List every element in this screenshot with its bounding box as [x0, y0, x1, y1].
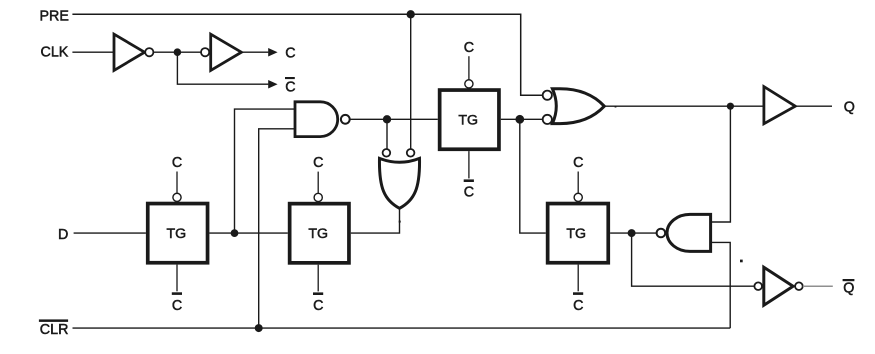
svg-text:C: C: [573, 155, 583, 171]
wire U5 output to Q buffer: [604, 105, 762, 107]
wire slave node down to TG4 input: [520, 119, 546, 233]
arrow C-bar: [268, 80, 277, 89]
wire U4 output down to TG2 output node: [351, 208, 400, 233]
wire PRE net: [72, 14, 542, 95]
nor gate U4 right input bubble: [407, 149, 415, 157]
wire U3 input 1 from master node between TG1 and TG2: [235, 109, 296, 232]
nand gate U7 body (facing left): [667, 214, 711, 251]
wire U3 output to TG3 input: [350, 118, 438, 120]
wire TG4 output to NAND U7 output bubble: [610, 232, 657, 234]
TG1 bottom control stub to C-bar: [176, 265, 178, 292]
wire internal clock node to C-bar arrow: [177, 52, 268, 84]
or gate U5 lower input bubble: [543, 115, 552, 124]
stray mark on U4 output wire: [399, 221, 401, 223]
wire U3 output node down to NOR U4 left input: [386, 119, 388, 149]
overline of C-bar below TG4: [573, 292, 583, 295]
nand gate U3 body: [295, 102, 338, 137]
or gate U5 upper input bubble: [543, 91, 552, 100]
TG4 control bubble: [574, 193, 582, 201]
inverter U1 (CLK input inverter): [114, 34, 145, 70]
svg-text:D: D: [58, 227, 68, 243]
wire U6 output to Q label: [795, 105, 832, 107]
TG2 control bubble: [314, 193, 322, 201]
buffer U6 (Q output driver): [764, 87, 795, 124]
svg-text:Q: Q: [843, 280, 854, 296]
U7 output bubble: [657, 229, 666, 238]
U1 output bubble: [145, 48, 153, 56]
wire slave output node down to Q-bar inverter: [632, 233, 755, 286]
TG2 bottom control stub to C-bar: [317, 265, 319, 292]
junction slave output node: [628, 229, 636, 237]
svg-text:C: C: [172, 155, 182, 171]
junction on CLR line: [255, 324, 263, 332]
overline of CLR label: [39, 319, 68, 322]
transmission gate TG3 box: [440, 90, 499, 149]
U3 output bubble: [341, 115, 350, 124]
junction Q node: [727, 103, 734, 110]
wire U7 lower input from CLR net: [711, 242, 731, 328]
transmission gate TG4 box: [548, 204, 609, 263]
TG1 control bubble: [173, 193, 181, 201]
TG2 control stub from C: [317, 172, 319, 194]
svg-text:CLR: CLR: [40, 322, 69, 338]
wire U8 output to Q-bar label: [803, 285, 833, 287]
svg-text:TG: TG: [566, 226, 586, 242]
U8 output bubble: [795, 282, 803, 290]
TG1 control stub from C: [176, 172, 178, 194]
svg-text:C: C: [172, 298, 182, 314]
wire PRE junction down to NOR U4 right input: [410, 14, 412, 149]
svg-text:C: C: [464, 40, 474, 56]
junction slave input node: [515, 115, 524, 124]
wire U1 output to U2 input: [153, 51, 201, 53]
transmission gate TG1 box: [148, 204, 208, 263]
overline of C-bar below TG3: [464, 179, 474, 182]
inverter U8 (Q-bar output driver): [764, 267, 793, 305]
nor gate U4 left input bubble: [383, 149, 391, 157]
TG4 control stub from C: [577, 172, 579, 194]
stray mark on U5 output wire: [615, 106, 617, 108]
svg-text:C: C: [285, 46, 295, 62]
wire D input to TG1: [74, 232, 146, 234]
svg-text:TG: TG: [458, 113, 478, 129]
wire Q node down to NAND U7 upper input: [711, 106, 731, 222]
wire CLK input: [72, 51, 113, 53]
wire U3 input 2 from CLR net: [259, 129, 295, 328]
svg-text:C: C: [313, 155, 323, 171]
nor gate U4 body (vertical, pointing down): [379, 158, 419, 208]
or gate U5 body: [552, 89, 604, 124]
overline of C-bar below TG1: [172, 292, 182, 295]
TG3 control bubble: [465, 80, 473, 88]
arrow C: [268, 48, 277, 57]
svg-text:CLK: CLK: [41, 45, 69, 61]
wire TG1 output to TG2 input: [209, 232, 287, 234]
transmission gate TG2 box: [290, 204, 349, 263]
svg-text:C: C: [313, 298, 323, 314]
svg-text:Q: Q: [844, 100, 855, 116]
svg-text:C: C: [285, 79, 295, 95]
svg-text:TG: TG: [308, 226, 328, 242]
junction U3 output node: [383, 115, 391, 123]
overline of C-bar below TG2: [313, 292, 323, 295]
junction on PRE line: [407, 10, 415, 18]
stray dot artifact near U7: [740, 260, 743, 263]
overline of C-bar label: [285, 77, 295, 79]
TG3 bottom control stub to C-bar: [468, 151, 470, 178]
wire U2 output to C arrow: [241, 51, 268, 53]
junction internal clock node: [174, 48, 182, 56]
U2 input bubble: [201, 48, 209, 56]
TG3 control stub from C: [468, 56, 470, 80]
overline of Q-bar label: [843, 279, 855, 281]
inverter U8 input bubble: [754, 282, 762, 290]
svg-text:C: C: [464, 185, 474, 201]
svg-text:TG: TG: [167, 226, 187, 242]
TG4 bottom control stub to C-bar: [577, 265, 579, 292]
svg-text:PRE: PRE: [40, 8, 69, 24]
svg-text:C: C: [573, 298, 583, 314]
wire TG3 output to OR U5 lower input: [501, 118, 543, 120]
inverter U2 (C driver): [211, 34, 242, 70]
wire CLR net: [73, 327, 731, 329]
junction master input node: [231, 229, 239, 237]
